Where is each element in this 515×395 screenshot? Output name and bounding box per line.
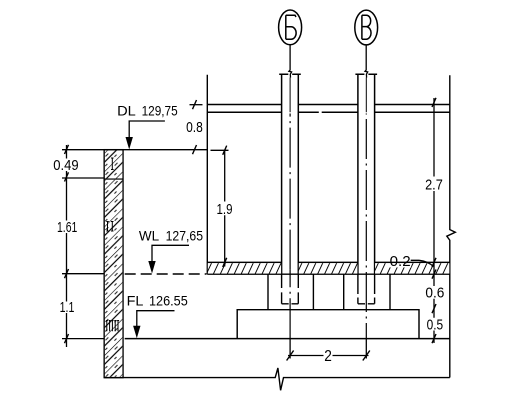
- wall stone mark 3: [106, 321, 119, 332]
- water line left extension: [62, 273, 104, 275]
- pile P1 centerline: [289, 114, 291, 270]
- pile P2 tip: [358, 303, 375, 305]
- WL leader: [152, 245, 189, 262]
- svg-text:1.9: 1.9: [217, 201, 233, 218]
- pile P2 right edge: [374, 74, 376, 274]
- svg-text:WL: WL: [139, 227, 160, 243]
- left dim tick at water line: [65, 269, 69, 278]
- svg-text:1.61: 1.61: [57, 219, 77, 236]
- svg-text:0.2: 0.2: [390, 253, 411, 270]
- left dim tick at wall top: [65, 145, 69, 154]
- deck beam bottom line: [208, 111, 450, 113]
- ground strip top line: [207, 261, 449, 263]
- left dimension line: [66, 145, 68, 347]
- bubble B1 ellipse: [279, 10, 302, 45]
- 0.2 leader tail: [411, 260, 434, 266]
- cap joint extension line: [62, 177, 104, 179]
- wall stone mark 1: [111, 158, 114, 170]
- pile P1 dim extension: [289, 339, 291, 359]
- FL leader: [137, 311, 175, 327]
- pile cap wall mid-right: [343, 274, 345, 310]
- retaining wall cap joint: [104, 178, 123, 180]
- WL arrow: [148, 261, 155, 274]
- svg-text:129,75: 129,75: [142, 103, 178, 119]
- pile P1 left edge: [281, 74, 283, 274]
- pile cap wall mid-left: [312, 274, 314, 310]
- svg-text:126.55: 126.55: [149, 293, 188, 309]
- DL arrow: [126, 137, 133, 150]
- FL arrow: [133, 326, 140, 339]
- text 0.2 backing: [389, 263, 411, 267]
- pile P1 hidden edges below ground: [282, 274, 299, 304]
- svg-text:0.5: 0.5: [427, 316, 444, 333]
- ground strip bottom line: [207, 273, 449, 275]
- dim tick at beam top: [432, 98, 436, 107]
- dim 0.8 tick top: [193, 100, 197, 109]
- svg-text:FL: FL: [127, 293, 144, 309]
- dim 2.7/0.6/0.5 line: [433, 98, 435, 343]
- bubble B1 leader: [289, 45, 292, 78]
- ground strip hatch: [208, 263, 449, 273]
- right section boundary with break: [447, 75, 456, 377]
- left section boundary line: [206, 75, 208, 275]
- svg-text:127,65: 127,65: [166, 227, 204, 243]
- svg-text:1.1: 1.1: [60, 299, 75, 316]
- foundation slab: [237, 310, 419, 339]
- dim 1.9 tick top: [223, 146, 227, 155]
- dim 2 tick left: [287, 351, 294, 361]
- wall stone mark 2: [106, 222, 113, 232]
- retaining wall hatch: [105, 150, 122, 376]
- svg-text:0.6: 0.6: [425, 285, 444, 302]
- pile P2 hidden edges below ground: [358, 274, 375, 304]
- bubble B1 letter Б: [286, 15, 296, 39]
- dim tick at strip top: [432, 258, 436, 267]
- bottom boundary line with break: [104, 368, 450, 390]
- svg-text:2: 2: [324, 348, 332, 365]
- dim 1.9 line: [224, 150, 226, 266]
- pile cap wall left: [267, 274, 269, 310]
- bubble B2 leader: [365, 45, 368, 78]
- deck beam top line: [208, 104, 450, 106]
- dim tick at strip bottom: [432, 270, 436, 279]
- DL leader: [129, 121, 165, 138]
- floor line left extension: [62, 338, 104, 340]
- dim 0.8 tick bottom: [193, 145, 197, 154]
- pile P2 centerline: [365, 114, 367, 340]
- dim 0.8 extension segment: [190, 104, 203, 106]
- pile P1 centerline lower: [289, 270, 291, 339]
- dim 1.9 tick bottom: [223, 258, 227, 267]
- bubble B2 letter В: [362, 15, 371, 39]
- svg-text:2.7: 2.7: [425, 177, 443, 194]
- dim tick at floor line: [432, 334, 436, 343]
- pile P2 top edge: [355, 73, 377, 75]
- svg-text:0.49: 0.49: [53, 157, 78, 174]
- pile P1 right edge: [297, 74, 299, 274]
- svg-text:DL: DL: [117, 103, 136, 119]
- pile P1 tip: [282, 303, 299, 305]
- dim 2 line: [288, 355, 369, 357]
- dim 1.9 top extension: [211, 149, 229, 151]
- water line dashed WL: [125, 273, 207, 275]
- wall top level line: [62, 149, 207, 151]
- dim tick at slab top: [432, 304, 436, 313]
- pile cap wall right: [389, 274, 391, 310]
- pile P2 dim extension: [365, 339, 367, 359]
- left dim tick at floor line: [65, 334, 69, 343]
- floor level line FL: [125, 338, 450, 340]
- svg-text:0.8: 0.8: [186, 119, 203, 136]
- pile P1 centerline solid part: [289, 78, 291, 113]
- bubble B2 ellipse: [355, 10, 378, 45]
- pile P1 top edge: [279, 73, 301, 75]
- left dim tick at cap joint: [65, 172, 69, 181]
- pile P2 centerline solid part: [365, 78, 367, 113]
- dim 2 tick right: [363, 351, 370, 361]
- pile P2 left edge: [357, 74, 359, 274]
- retaining wall outline: [104, 150, 123, 378]
